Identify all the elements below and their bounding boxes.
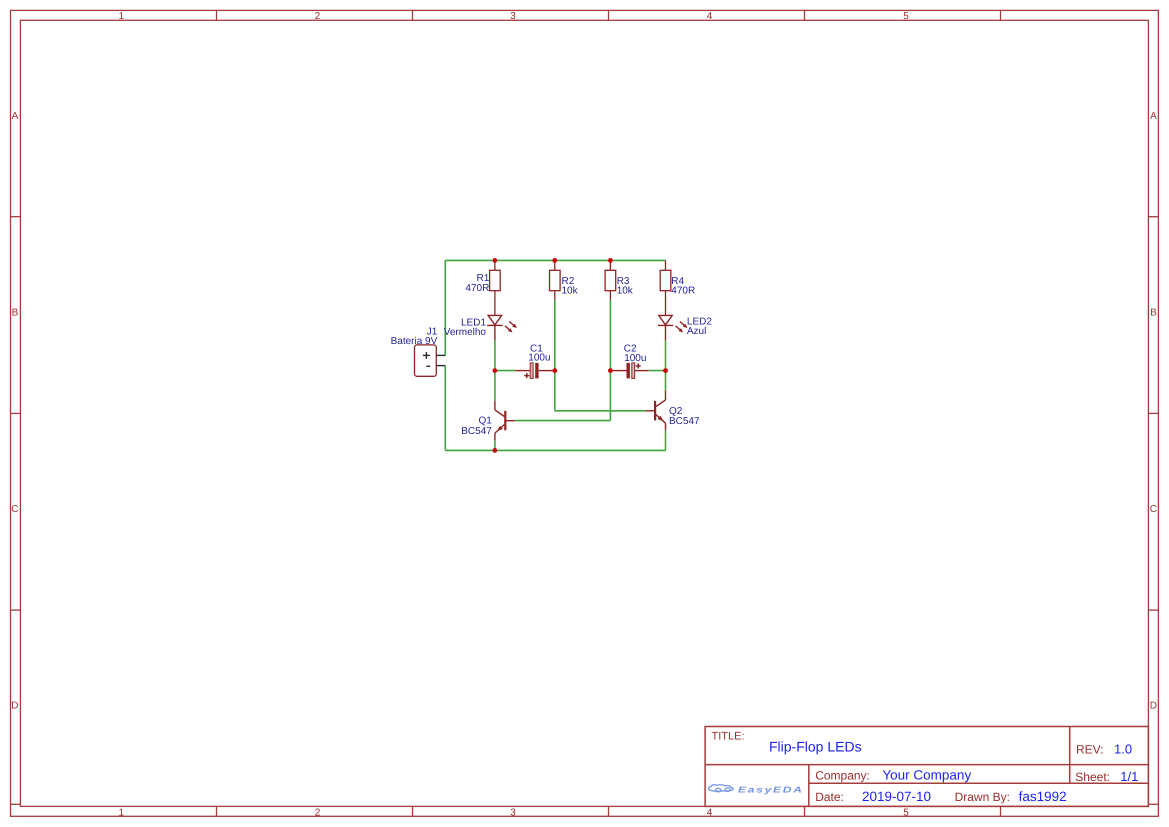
resistor R3 [605,260,616,300]
wire: Q1 emitter to bottom bus [494,440,496,450]
svg-text:3: 3 [510,807,516,818]
svg-text:2019-07-10: 2019-07-10 [862,789,931,804]
wire: left vertical from battery - down to bottom bus [444,366,446,451]
svg-text:4: 4 [707,11,713,22]
svg-text:Azul: Azul [687,326,706,337]
svg-text:470R: 470R [465,283,489,294]
svg-text:4: 4 [707,807,713,818]
svg-text:1.0: 1.0 [1114,741,1132,756]
svg-text:BC547: BC547 [669,416,700,427]
label R3 / 10k [617,276,634,297]
junction node B (C1/R2) [552,368,557,373]
junction node D (C2/LED2/Q2 collector) [663,368,668,373]
svg-text:REV:: REV: [1076,742,1104,756]
svg-text:1/1: 1/1 [1120,769,1138,784]
wire: R3 to Q1 base [515,420,611,422]
junction on top bus at R2 [552,258,557,263]
svg-text:10k: 10k [617,286,634,297]
wire: C1 right pin to node B [553,370,555,372]
label LED2 / Azul [687,316,712,337]
svg-text:B: B [12,307,19,318]
label J1 / Bateria 9V [391,327,438,347]
wire: Q2 emitter to bottom bus [665,430,667,450]
wire: bottom ground bus [445,449,665,451]
junction on bottom bus at Q1 emitter [493,448,498,453]
label Q1 / BC547 [461,416,492,437]
svg-text:D: D [1150,701,1157,712]
wire: LED2 cathode down to node D and Q2 collector [665,340,667,391]
LED2 [658,315,685,340]
svg-text:EasyEDA: EasyEDA [738,784,804,794]
svg-text:5: 5 [903,807,909,818]
svg-text:D: D [11,701,18,712]
svg-text:2: 2 [315,807,321,818]
title block [705,727,1148,807]
junction node A (LED1/C1/Q1 collector) [493,368,498,373]
svg-text:C: C [11,504,18,515]
wire: node A to C1 left pin [495,370,515,372]
svg-text:Your Company: Your Company [882,767,971,782]
svg-text:TITLE:: TITLE: [712,730,745,742]
svg-text:Vermelho: Vermelho [444,327,487,338]
junction on top bus at R1 [493,258,498,263]
resistor R4 [660,260,671,315]
svg-text:Drawn By:: Drawn By: [955,790,1010,804]
svg-text:Sheet:: Sheet: [1075,770,1110,784]
svg-text:5: 5 [903,11,909,22]
svg-text:470R: 470R [671,286,695,297]
svg-text:100u: 100u [528,353,550,364]
wire: LED1 cathode down to node A and Q1 collector [494,340,496,401]
junction node C (C2/R3) [608,368,613,373]
resistor R2 [550,260,561,300]
transistor Q2 [645,391,665,430]
svg-text:Bateria 9V: Bateria 9V [391,336,438,347]
capacitor C1 [515,363,553,379]
wire: C2 right pin to node D [649,370,666,372]
svg-text:A: A [12,111,19,122]
svg-text:3: 3 [510,11,516,22]
title block values [769,738,1138,804]
svg-text:Company:: Company: [815,768,870,782]
transistor Q1 [495,401,515,441]
label R1 / 470R [465,273,489,294]
svg-text:Date:: Date: [815,790,844,804]
svg-text:A: A [1150,111,1157,122]
label LED1 / Vermelho [444,318,487,338]
svg-text:C: C [1150,504,1157,515]
svg-text:1: 1 [119,11,125,22]
EasyEDA logo [709,785,733,792]
svg-text:2: 2 [315,11,321,22]
wire: left vertical from battery + up to top bus [444,260,446,355]
title block labels [712,730,1111,804]
svg-text:10k: 10k [562,286,579,297]
label R2 / 10k [562,276,579,297]
svg-text:fas1992: fas1992 [1019,789,1067,804]
svg-text:100u: 100u [624,353,646,364]
label C1 / 100u [528,343,550,363]
wire: R2 column down to Q2 base row [554,300,556,411]
battery J1 [415,345,446,376]
label Q2 / BC547 [669,406,700,427]
resistor R1 [490,260,501,315]
svg-text:B: B [1150,307,1157,318]
wire: top supply bus [445,259,665,261]
svg-text:1: 1 [119,807,125,818]
junction on top bus at R3 [608,258,613,263]
wire: R2 to Q2 base [555,410,646,412]
svg-text:BC547: BC547 [461,426,492,437]
label R4 / 470R [671,276,695,297]
LED1 [487,315,514,340]
label C2 / 100u [624,344,647,365]
svg-text:Flip-Flop LEDs: Flip-Flop LEDs [769,738,862,754]
capacitor C2 [613,363,649,379]
wire: R3 column down to Q1 base row [609,300,611,420]
